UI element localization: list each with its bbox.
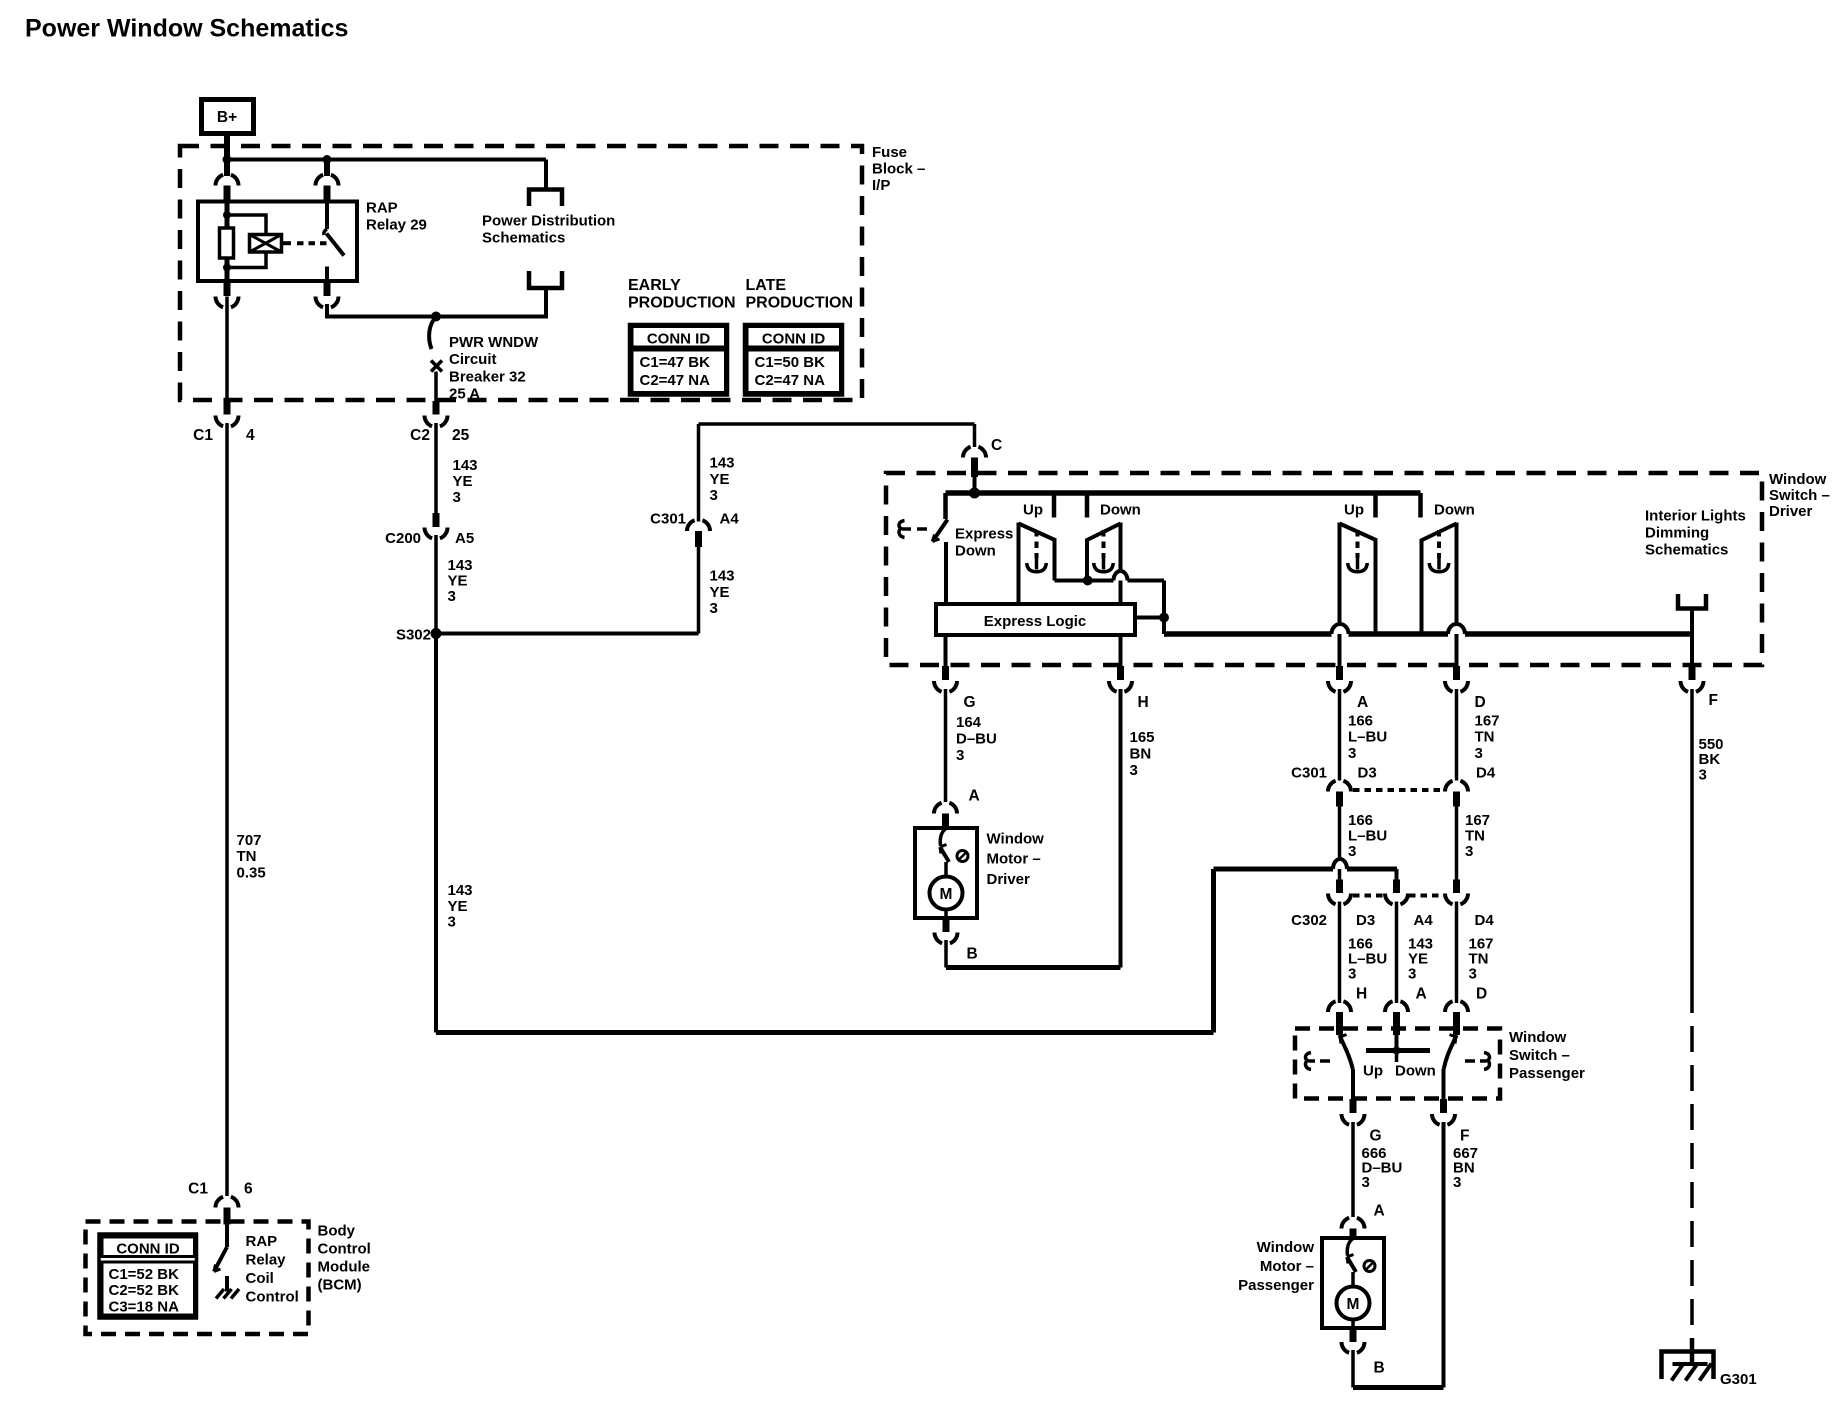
svg-text:Relay 29: Relay 29 [366,217,427,234]
svg-text:3: 3 [453,489,461,506]
svg-text:Dimming: Dimming [1645,525,1709,542]
svg-text:H: H [1138,694,1149,711]
svg-text:Coil: Coil [246,1270,274,1287]
svg-text:S302: S302 [396,627,431,644]
svg-text:YE: YE [448,898,468,915]
svg-text:Down: Down [1100,502,1141,519]
svg-text:F: F [1460,1128,1469,1145]
svg-text:G: G [1370,1128,1382,1145]
svg-text:C302: C302 [1291,912,1327,929]
svg-text:3: 3 [956,747,964,764]
svg-text:Switch –: Switch – [1509,1047,1570,1064]
svg-text:143: 143 [710,455,735,472]
svg-text:25: 25 [452,427,470,444]
svg-text:A: A [1374,1203,1385,1220]
svg-text:(BCM): (BCM) [318,1277,362,1294]
svg-text:164: 164 [956,714,982,731]
svg-text:3: 3 [1362,1174,1370,1191]
svg-text:H: H [1356,986,1367,1003]
svg-text:Express: Express [955,526,1013,543]
svg-text:Passenger: Passenger [1238,1277,1314,1294]
svg-text:BN: BN [1130,746,1152,763]
svg-text:B+: B+ [217,109,237,126]
svg-text:G301: G301 [1720,1371,1757,1388]
svg-text:3: 3 [448,588,456,605]
svg-text:D4: D4 [1475,912,1495,929]
svg-text:A: A [969,788,980,805]
svg-text:C200: C200 [385,530,421,547]
svg-text:165: 165 [1130,729,1155,746]
svg-text:YE: YE [710,471,730,488]
svg-text:TN: TN [237,848,257,865]
svg-text:3: 3 [1469,966,1477,983]
svg-text:Driver: Driver [987,871,1031,888]
svg-text:C2: C2 [410,427,430,444]
svg-text:Schematics: Schematics [482,230,565,247]
svg-text:Switch –: Switch – [1769,487,1830,504]
svg-text:166: 166 [1348,812,1373,829]
svg-text:167: 167 [1475,713,1500,730]
svg-text:YE: YE [710,584,730,601]
svg-text:C3=18 NA: C3=18 NA [109,1299,180,1316]
svg-text:F: F [1709,692,1718,709]
svg-text:BK: BK [1699,751,1721,768]
svg-text:PRODUCTION: PRODUCTION [746,295,854,312]
svg-text:TN: TN [1475,729,1495,746]
svg-text:L–BU: L–BU [1348,828,1387,845]
svg-text:6: 6 [244,1181,253,1198]
svg-text:707: 707 [237,832,262,849]
svg-text:0.35: 0.35 [237,865,266,882]
svg-text:C1: C1 [193,427,213,444]
svg-text:C: C [991,437,1002,454]
svg-text:Window: Window [1257,1239,1315,1256]
svg-text:C301: C301 [650,511,686,528]
svg-text:D: D [1475,694,1486,711]
svg-text:Up: Up [1363,1063,1383,1080]
svg-text:B: B [1374,1360,1385,1377]
svg-text:3: 3 [1348,966,1356,983]
svg-text:Module: Module [318,1259,371,1276]
svg-text:D4: D4 [1476,765,1496,782]
svg-text:Up: Up [1344,502,1364,519]
svg-text:3: 3 [1475,745,1483,762]
svg-text:RAP: RAP [246,1233,278,1250]
svg-text:Power Distribution: Power Distribution [482,213,615,230]
svg-text:3: 3 [1408,966,1416,983]
svg-text:Relay: Relay [246,1252,287,1269]
svg-text:Window: Window [1509,1029,1567,1046]
svg-text:Block –: Block – [872,161,925,178]
svg-text:166: 166 [1348,713,1373,730]
svg-text:D: D [1476,986,1487,1003]
svg-text:D–BU: D–BU [956,731,997,748]
svg-text:G: G [964,694,976,711]
svg-text:C2=47 NA: C2=47 NA [755,372,826,389]
svg-text:Down: Down [955,543,996,560]
svg-text:C1=50 BK: C1=50 BK [755,354,826,371]
svg-text:A: A [1416,986,1427,1003]
svg-text:L–BU: L–BU [1348,729,1387,746]
svg-text:EARLY: EARLY [628,277,681,294]
svg-text:Motor –: Motor – [1260,1258,1314,1275]
svg-text:Control: Control [318,1241,371,1258]
svg-text:Interior Lights: Interior Lights [1645,508,1746,525]
svg-text:3: 3 [1453,1174,1461,1191]
svg-text:D3: D3 [1358,765,1377,782]
svg-text:C301: C301 [1291,765,1327,782]
svg-text:YE: YE [453,473,473,490]
svg-text:Circuit: Circuit [449,351,497,368]
svg-text:CONN ID: CONN ID [647,331,711,348]
svg-text:PRODUCTION: PRODUCTION [628,295,736,312]
svg-text:Breaker 32: Breaker 32 [449,369,526,386]
svg-text:Down: Down [1395,1063,1436,1080]
svg-text:A: A [1357,694,1368,711]
svg-text:3: 3 [1348,843,1356,860]
svg-text:Down: Down [1434,502,1475,519]
svg-text:143: 143 [710,568,735,585]
svg-text:M: M [1347,1296,1360,1313]
svg-text:M: M [940,886,953,903]
svg-text:B: B [967,946,978,963]
svg-text:Express Logic: Express Logic [984,613,1087,630]
svg-text:D3: D3 [1356,912,1375,929]
svg-text:3: 3 [1130,762,1138,779]
svg-text:A4: A4 [1414,912,1434,929]
svg-text:3: 3 [710,487,718,504]
svg-text:3: 3 [710,600,718,617]
svg-text:Up: Up [1023,502,1043,519]
svg-text:CONN ID: CONN ID [116,1241,180,1258]
svg-text:I/P: I/P [872,177,890,194]
svg-text:25 A: 25 A [449,386,480,403]
svg-text:143: 143 [453,457,478,474]
svg-text:Power Window Schematics: Power Window Schematics [25,15,348,43]
svg-text:CONN ID: CONN ID [762,331,826,348]
svg-text:Passenger: Passenger [1509,1065,1585,1082]
svg-text:Schematics: Schematics [1645,542,1728,559]
svg-text:C1: C1 [188,1181,208,1198]
svg-text:4: 4 [246,427,255,444]
svg-text:143: 143 [448,882,473,899]
svg-text:3: 3 [1348,745,1356,762]
svg-text:143: 143 [448,557,473,574]
svg-text:PWR WNDW: PWR WNDW [449,334,539,351]
svg-text:C1=47 BK: C1=47 BK [640,354,711,371]
svg-text:C2=47 NA: C2=47 NA [640,372,711,389]
svg-text:3: 3 [1465,843,1473,860]
svg-text:YE: YE [448,573,468,590]
svg-text:167: 167 [1465,812,1490,829]
svg-text:Window: Window [1769,471,1827,488]
svg-text:LATE: LATE [746,277,787,294]
svg-text:A4: A4 [720,511,740,528]
svg-text:Body: Body [318,1223,356,1240]
svg-text:3: 3 [1699,767,1707,784]
svg-text:Fuse: Fuse [872,144,907,161]
svg-text:A5: A5 [455,530,474,547]
svg-text:Window: Window [987,831,1045,848]
svg-text:RAP: RAP [366,200,398,217]
svg-text:Control: Control [246,1289,299,1306]
svg-text:TN: TN [1465,828,1485,845]
svg-text:Driver: Driver [1769,503,1813,520]
svg-text:Motor –: Motor – [987,851,1041,868]
svg-text:C2=52 BK: C2=52 BK [109,1282,180,1299]
svg-text:3: 3 [448,914,456,931]
svg-text:C1=52 BK: C1=52 BK [109,1266,180,1283]
